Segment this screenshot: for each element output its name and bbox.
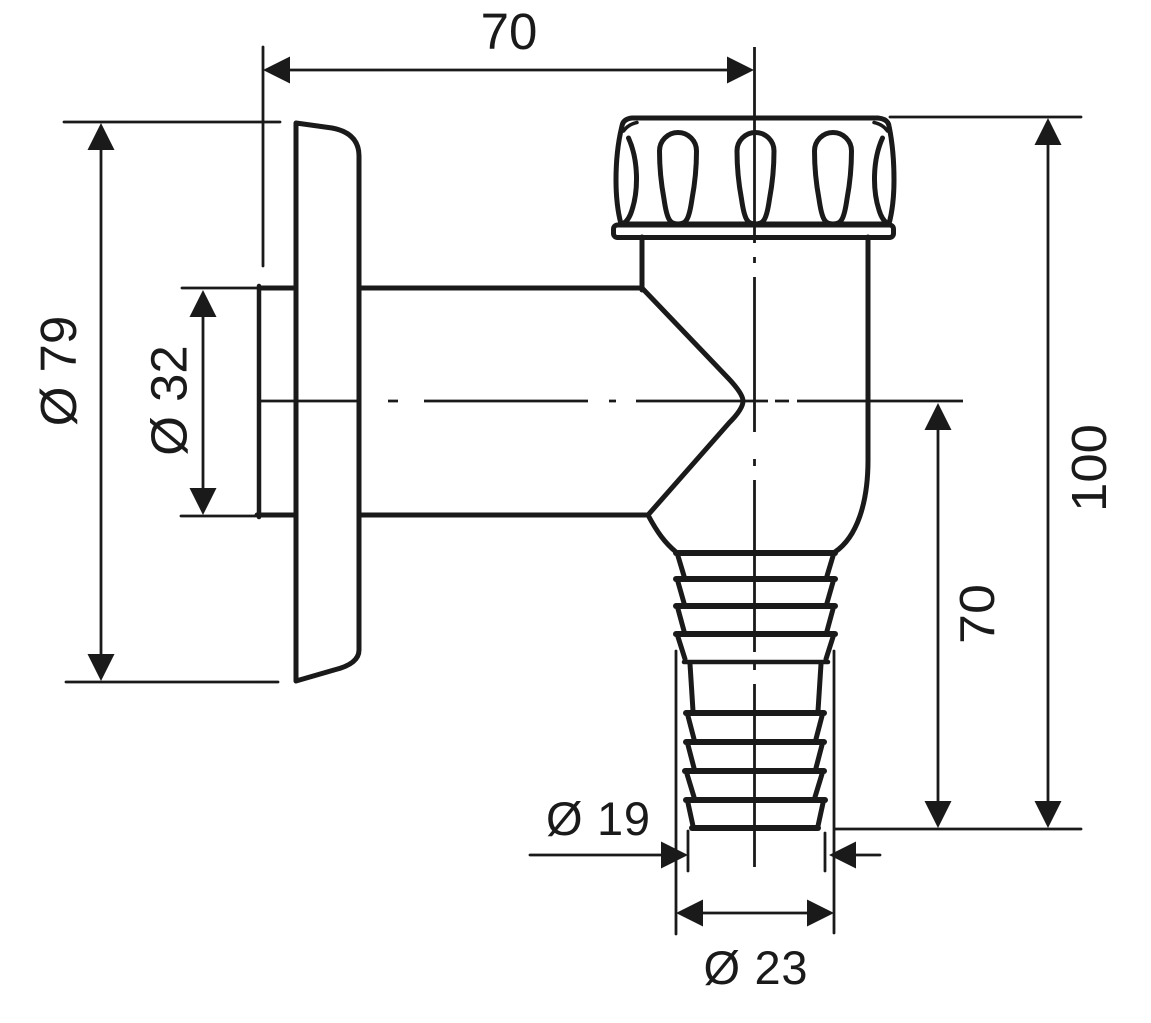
rib 2 sides (678, 582, 833, 603)
pipe left end edge (257, 286, 262, 517)
barb rib line 4 (676, 631, 835, 637)
dim 70 arrows (263, 57, 754, 84)
barb rib line 3 (676, 603, 835, 609)
barb rib line 2 (676, 576, 835, 582)
svg-text:Ø 19: Ø 19 (546, 792, 650, 845)
svg-text:100: 100 (1063, 424, 1117, 512)
svg-text:Ø 32: Ø 32 (141, 345, 198, 456)
body neck left edge (640, 237, 645, 290)
rib 4 bottom edge (684, 660, 828, 665)
cap top-right corner inner edge (874, 123, 888, 132)
dim 70 right line (937, 428, 940, 803)
cap slot left crescent (624, 138, 637, 224)
dim Ø79 line (100, 148, 103, 656)
dim 70 top line (289, 69, 728, 72)
horizontal centerline (259, 400, 963, 403)
body bottom left curve (648, 515, 676, 552)
cap top-left corner inner edge (624, 123, 638, 132)
shaft sides (690, 664, 821, 711)
svg-text:70: 70 (481, 3, 538, 60)
rib 7 sides (687, 774, 822, 797)
cap slot right crescent (874, 138, 887, 224)
dim 100 line (1047, 143, 1050, 803)
rib 6 sides (688, 745, 822, 768)
dim Ø23 line (700, 912, 810, 915)
pipe bottom edge (257, 513, 648, 518)
dim Ø32 line (202, 314, 205, 490)
cone chevron into body (642, 288, 743, 515)
dim Ø19: extensions (687, 831, 690, 871)
barb rib line 8 (686, 797, 825, 803)
cap slot 3 (815, 133, 852, 224)
barb rib line 7 (685, 768, 824, 774)
body right edge (835, 237, 868, 552)
cap slot 1 (660, 133, 697, 224)
vertical centerline (753, 47, 756, 867)
barb rib line 1 (676, 550, 835, 556)
pipe top edge (259, 286, 642, 291)
dim 70 top: extension left (262, 47, 265, 266)
cap slot 2 (center) (737, 133, 774, 224)
rib 8 sides (688, 803, 823, 826)
svg-text:Ø 23: Ø 23 (704, 941, 808, 994)
rib 3 sides (678, 609, 833, 631)
cap bottom collar (614, 225, 894, 238)
dim Ø23: extensions (675, 651, 678, 934)
barb rib line 5 (686, 710, 824, 716)
dim Ø79: extensions (64, 121, 280, 124)
dim Ø19 lines (530, 854, 662, 857)
rib 1 sides (678, 556, 833, 576)
wall flange (296, 123, 359, 681)
dim 100: extensions (890, 116, 1081, 119)
rib 4 sides (678, 637, 833, 659)
rib 5 sides (688, 716, 822, 739)
dim Ø32: extensions (182, 287, 257, 290)
svg-text:Ø 79: Ø 79 (30, 316, 87, 427)
svg-text:70: 70 (951, 584, 1005, 644)
barb bottom edge (692, 825, 818, 831)
knurled cap outline (616, 118, 894, 224)
barb rib line 6 (686, 739, 824, 745)
